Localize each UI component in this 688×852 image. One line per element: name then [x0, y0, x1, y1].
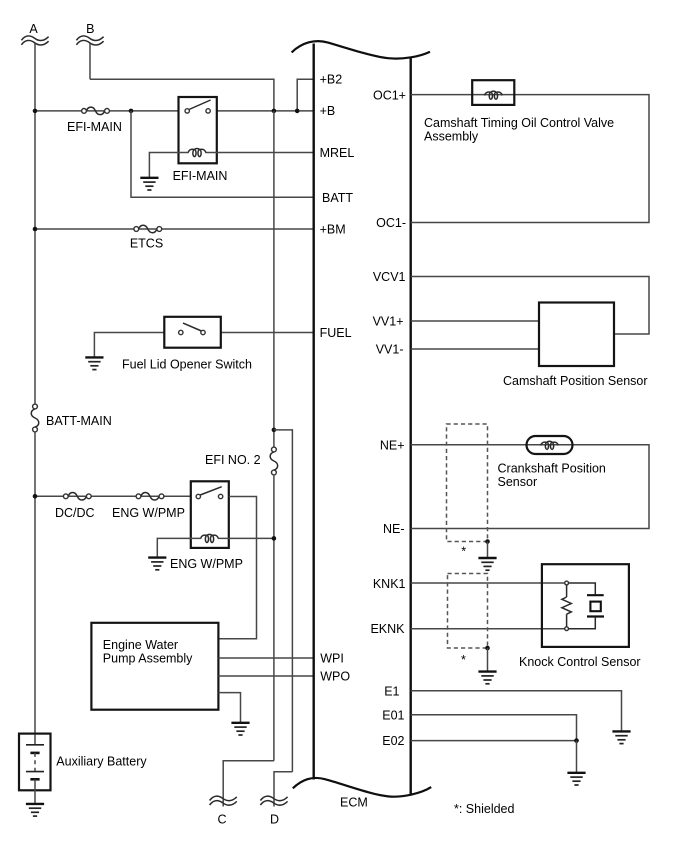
- wire WPI: [218, 657, 313, 659]
- fuse BATT-MAIN: [31, 404, 112, 432]
- svg-text:BATT-MAIN: BATT-MAIN: [46, 414, 112, 428]
- svg-text:DC/DC: DC/DC: [55, 506, 95, 520]
- svg-text:E01: E01: [382, 708, 404, 722]
- wire fuel switch to ground: [94, 333, 164, 357]
- svg-text:ETCS: ETCS: [130, 237, 163, 251]
- wire E02: [411, 740, 577, 742]
- ground pump: [231, 723, 249, 735]
- ground E1: [612, 731, 630, 743]
- wire VCV1: [411, 277, 649, 335]
- ground relay EFI-MAIN: [140, 178, 158, 190]
- wire to connector D: [274, 772, 292, 807]
- svg-text:*: *: [461, 653, 466, 667]
- label Camshaft Timing Oil Control Valve Assembly: [424, 116, 614, 144]
- node dot A/+B rail: [33, 109, 38, 114]
- svg-text:Sensor: Sensor: [498, 475, 538, 489]
- ECM right edge: [410, 58, 412, 796]
- wire shield KNK ground stem: [487, 648, 489, 671]
- wire OC1+ loop: [411, 95, 649, 223]
- node dot +B2 feed: [295, 109, 300, 114]
- wire KNK1: [411, 582, 565, 584]
- svg-text:D: D: [270, 813, 279, 827]
- wire EKNK: [411, 628, 565, 630]
- wire VV1-: [411, 348, 539, 350]
- svg-text:E1: E1: [384, 685, 399, 699]
- wire EFI NO.2 fuse to coil node: [273, 475, 275, 761]
- svg-text:EKNK: EKNK: [370, 622, 405, 636]
- ground battery: [26, 804, 44, 816]
- svg-text:Engine Water: Engine Water: [103, 638, 178, 652]
- connector A: [21, 22, 48, 45]
- ECM top torn edge: [292, 41, 430, 58]
- wire NE loop: [411, 445, 649, 529]
- node dot EFI NO.2 branch: [272, 428, 277, 433]
- ground fuel lid switch: [85, 357, 103, 369]
- svg-text:Camshaft Timing Oil Control Va: Camshaft Timing Oil Control Valve: [424, 116, 614, 130]
- ground relay ENG W/PMP: [148, 558, 166, 570]
- wire B down: [89, 44, 91, 80]
- switch Fuel Lid Opener: [122, 317, 252, 372]
- svg-text:EFI NO. 2: EFI NO. 2: [205, 453, 261, 467]
- connector C: [210, 796, 237, 826]
- wire BATT branch: [131, 111, 314, 197]
- shield dashed box NE: [447, 424, 488, 542]
- svg-text:KNK1: KNK1: [373, 577, 406, 591]
- wire A feed lower: [34, 432, 36, 735]
- wire relay2 coil to ground: [157, 538, 201, 557]
- wire A feed vertical: [34, 44, 36, 405]
- svg-text:+B: +B: [320, 104, 336, 118]
- svg-text:VCV1: VCV1: [373, 270, 406, 284]
- svg-text:ENG W/PMP: ENG W/PMP: [170, 557, 243, 571]
- ground shield NE: [478, 558, 496, 570]
- wire +BM rail: [35, 228, 314, 230]
- wire E02 ground stem: [576, 741, 578, 773]
- svg-text:E02: E02: [382, 734, 404, 748]
- battery Auxiliary: [19, 734, 147, 803]
- svg-text:VV1+: VV1+: [373, 315, 404, 329]
- svg-text:ENG W/PMP: ENG W/PMP: [112, 506, 185, 520]
- svg-text:NE+: NE+: [380, 438, 405, 452]
- pickup coil Crankshaft sensor: [527, 436, 573, 454]
- wire E1: [411, 691, 622, 731]
- ground shield KNK: [478, 672, 496, 684]
- svg-text:VV1-: VV1-: [376, 343, 404, 357]
- label Crankshaft Position Sensor: [498, 462, 606, 490]
- box Camshaft Position Sensor: [503, 303, 648, 389]
- wire B to node: [90, 79, 274, 111]
- svg-text:EFI-MAIN: EFI-MAIN: [173, 169, 228, 183]
- fuse EFI-MAIN: [67, 107, 122, 134]
- wire E01: [411, 715, 577, 741]
- wire +B2 stub: [297, 79, 314, 111]
- svg-text:WPO: WPO: [320, 670, 350, 684]
- svg-text:Fuel Lid Opener Switch: Fuel Lid Opener Switch: [122, 358, 252, 372]
- svg-text:BATT: BATT: [322, 191, 353, 205]
- relay EFI NO.2 / ENG W-PMP: [170, 481, 243, 571]
- svg-text:Camshaft Position Sensor: Camshaft Position Sensor: [503, 374, 648, 388]
- box Knock Control Sensor: [519, 564, 641, 669]
- wire FUEL rail: [221, 332, 314, 334]
- valve OC1 coil box: [472, 80, 514, 105]
- wire branch to D leg: [274, 430, 293, 772]
- svg-text:C: C: [217, 813, 226, 827]
- svg-text:*: Shielded: *: Shielded: [454, 802, 515, 816]
- wire relay coil to MREL: [206, 152, 314, 154]
- node dot shield NE: [485, 539, 490, 544]
- box Engine Water Pump Assembly: [91, 623, 218, 710]
- fuse ENG W/PMP: [112, 493, 185, 520]
- svg-text:Knock Control Sensor: Knock Control Sensor: [519, 655, 641, 669]
- node dot DC/DC rail: [33, 494, 38, 499]
- fuse DC/DC: [55, 493, 95, 520]
- svg-text:Pump Assembly: Pump Assembly: [103, 651, 193, 665]
- wire shield NE ground stem: [487, 542, 489, 558]
- svg-text:OC1+: OC1+: [373, 88, 406, 102]
- wire relay output to +B pin: [217, 110, 314, 112]
- svg-text:B: B: [86, 22, 94, 36]
- connector B: [76, 22, 103, 45]
- node dot ETCS rail: [33, 227, 38, 232]
- wire relay2 coil to node: [218, 537, 274, 539]
- svg-text:Crankshaft Position: Crankshaft Position: [498, 462, 606, 476]
- fuse EFI NO. 2: [205, 447, 278, 475]
- wire DC/DC rail: [35, 495, 191, 497]
- shield dashed box KNK: [448, 574, 488, 649]
- svg-text:+B2: +B2: [320, 73, 343, 87]
- svg-text:WPI: WPI: [320, 651, 344, 665]
- node dot B feed on +B: [272, 109, 277, 114]
- svg-text:A: A: [29, 22, 38, 36]
- svg-text:NE-: NE-: [383, 522, 405, 536]
- connector D: [260, 796, 287, 826]
- node dot shield KNK: [485, 646, 490, 651]
- svg-text:FUEL: FUEL: [320, 326, 352, 340]
- wire to connector C: [223, 761, 274, 807]
- svg-text:EFI-MAIN: EFI-MAIN: [67, 120, 122, 134]
- wire relay coil to ground: [149, 153, 188, 178]
- svg-text:Auxiliary Battery: Auxiliary Battery: [56, 755, 147, 769]
- wire pump to ground: [218, 693, 240, 723]
- wire relay2 switch to pump: [218, 497, 256, 639]
- svg-text:OC1-: OC1-: [376, 216, 406, 230]
- ECM left edge: [313, 44, 315, 780]
- relay EFI-MAIN: [173, 97, 228, 183]
- node dot coil feed: [272, 536, 277, 541]
- ground E02: [567, 773, 585, 785]
- wire WPO: [218, 675, 313, 677]
- fuse ETCS: [130, 225, 163, 250]
- svg-text:*: *: [461, 545, 466, 559]
- wire main feed vertical: [273, 111, 275, 447]
- ECM bottom torn edge: [293, 778, 431, 797]
- svg-text:MREL: MREL: [320, 146, 355, 160]
- wire +B rail: [35, 110, 179, 112]
- node dot E01/E02: [574, 738, 579, 743]
- svg-text:+BM: +BM: [320, 223, 346, 237]
- svg-text:Assembly: Assembly: [424, 130, 479, 144]
- node dot BATT branch: [129, 109, 134, 114]
- svg-text:ECM: ECM: [340, 795, 368, 809]
- wire VV1+: [411, 320, 539, 322]
